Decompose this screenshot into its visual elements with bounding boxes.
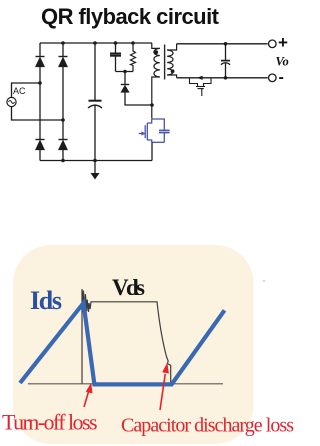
svg-text:QR flyback circuit: QR flyback circuit bbox=[41, 4, 220, 29]
node: top rail right diode tap bbox=[61, 41, 65, 45]
node: AC-right branch junction bbox=[61, 118, 65, 122]
wire: bottom negative rail bbox=[40, 160, 152, 162]
diode D2 (bridge upper-right) bbox=[59, 57, 68, 67]
Vds trace (thin black) bbox=[82, 289, 171, 384]
node: AC-left branch junction bbox=[38, 81, 42, 85]
terminal: + output bbox=[269, 33, 289, 52]
ground bbox=[91, 161, 100, 180]
arrow: turn-off loss pointer bbox=[84, 383, 93, 408]
diode D5 (clamp) bbox=[121, 72, 152, 106]
svg-text:Vo: Vo bbox=[276, 55, 289, 69]
svg-text:Vds: Vds bbox=[112, 275, 145, 300]
wire: output negative rail bbox=[177, 77, 268, 79]
transformer T1 primary winding bbox=[152, 43, 160, 119]
node: top rail bulk cap tap bbox=[93, 41, 97, 45]
node: top rail snubber-cap tap bbox=[114, 41, 118, 45]
wire: top DC rail bbox=[40, 42, 152, 44]
resistor R1 (snubber) bbox=[131, 43, 136, 72]
waveform panel bbox=[13, 245, 254, 444]
transistor Q2 (sync rectifier) bbox=[190, 76, 212, 96]
node: top rail snubber-res tap bbox=[131, 41, 135, 45]
svg-text:-: - bbox=[279, 69, 284, 86]
diode D4 (bridge lower-right) bbox=[59, 140, 68, 150]
node: output cap bottom bbox=[224, 76, 228, 80]
speck (faint artifact) bbox=[263, 280, 265, 282]
svg-text:Capacitor discharge loss: Capacitor discharge loss bbox=[121, 415, 294, 437]
svg-text:AC: AC bbox=[13, 86, 26, 96]
svg-text:Turn-off loss: Turn-off loss bbox=[2, 410, 98, 435]
capacitor C1 (bulk electrolytic) bbox=[88, 101, 102, 108]
node: bottom rail bulk cap tap bbox=[93, 159, 97, 163]
diode D1 (bridge upper-left) bbox=[36, 57, 45, 67]
waveform baseline bbox=[28, 383, 223, 385]
svg-text:Ids: Ids bbox=[30, 286, 62, 315]
capacitor C3 (output) bbox=[221, 44, 230, 78]
transformer T1 secondary winding bbox=[167, 44, 176, 78]
wire: MOSFET source to bottom rail bbox=[151, 142, 153, 160]
svg-text:+: + bbox=[278, 33, 288, 52]
wire: AC hot lead bbox=[12, 83, 41, 98]
wire: right bridge branch bbox=[62, 43, 64, 161]
wire: bulk capacitor branch bbox=[94, 43, 96, 161]
Ids trace (thick blue) bbox=[20, 303, 225, 384]
arrow: capacitor discharge pointer bbox=[160, 363, 169, 411]
secondary phase dot bbox=[171, 69, 175, 73]
wire: left bridge branch bbox=[39, 43, 41, 161]
diode D3 (bridge lower-left) bbox=[36, 140, 45, 150]
primary phase dot bbox=[154, 50, 158, 54]
capacitor C2 (snubber) bbox=[110, 43, 121, 72]
transformer T1 core bbox=[164, 45, 166, 80]
transistor Q1 (primary MOSFET, blue) with parallel capacitor bbox=[139, 119, 170, 142]
node: clamp-drain junction bbox=[150, 103, 154, 107]
wire: AC return lead bbox=[12, 107, 64, 121]
AC source V1 bbox=[7, 86, 26, 107]
node: snubber-diode junction bbox=[123, 70, 127, 74]
node: lower rail right diode tap bbox=[61, 159, 65, 163]
terminal: - output bbox=[269, 69, 284, 86]
node: output cap top bbox=[224, 42, 228, 46]
wire: output positive rail bbox=[177, 43, 268, 45]
wire: snubber bottom link bbox=[116, 71, 134, 73]
